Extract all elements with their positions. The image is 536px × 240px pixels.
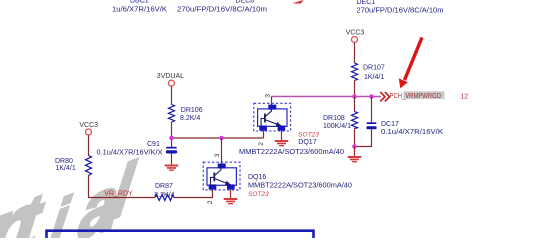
wire net y138 (C91 junction to DQ17 base) [172, 137, 264, 139]
off-page connector chevrons >> [380, 92, 389, 101]
wire DR87 to DQ16 base [174, 189, 213, 197]
wire 3VDUAL to DR106 [171, 86, 173, 104]
wire DQ17 emitter to ground [281, 131, 283, 141]
svg-text:1K/4/1: 1K/4/1 [364, 74, 384, 81]
ground (DQ17) [275, 140, 289, 146]
svg-text:1K/4/1: 1K/4/1 [56, 165, 76, 172]
svg-text:270u/FP/D/16V/8C/A/10m: 270u/FP/D/16V/8C/A/10m [177, 7, 267, 14]
power node VCC3 (right) terminal circle [352, 37, 358, 43]
svg-text:2: 2 [258, 142, 265, 146]
ground (DQ16) [224, 198, 238, 204]
wire VCC3 to DR107 [354, 43, 356, 63]
junction node bottom rail [352, 144, 357, 149]
svg-text:0.1u/4/X7R/16V/K/X: 0.1u/4/X7R/16V/K/X [97, 150, 163, 157]
resistor DR80 [86, 156, 92, 176]
svg-text:DQ17: DQ17 [298, 139, 316, 146]
svg-text:270u/FP/D/16V/8C/A/10m: 270u/FP/D/16V/8C/A/10m [357, 7, 444, 14]
svg-text:12: 12 [460, 94, 468, 101]
red annotation arrow tip (top, cut off) [292, 0, 304, 4]
svg-text:DEC8: DEC8 [236, 0, 255, 4]
junction DQ16 collector node [219, 136, 224, 141]
ground (DR108/DC17) [348, 156, 362, 162]
junction node DC17 top [369, 94, 374, 99]
svg-text:1u/6/X7R/16V/K: 1u/6/X7R/16V/K [112, 7, 167, 14]
wire DQ16 emitter to ground [230, 189, 232, 198]
wire DQ17 collector stub [271, 97, 273, 105]
svg-text:DBC1: DBC1 [130, 0, 149, 5]
svg-text:8.2K/4: 8.2K/4 [154, 192, 174, 199]
wire DQ16 collector [221, 138, 223, 164]
svg-text:DR80: DR80 [55, 158, 73, 165]
svg-text:DQ16: DQ16 [248, 174, 266, 181]
svg-text:DR108: DR108 [323, 115, 345, 122]
wire junction to ground [354, 147, 356, 157]
wire VCC3 to DR80 [88, 135, 90, 155]
svg-text:100K/4/1: 100K/4/1 [323, 123, 351, 130]
svg-text:SOT23: SOT23 [248, 191, 269, 198]
watermark Confidential [0, 146, 140, 240]
svg-text:MMBT2222A/SOT23/600mA/40: MMBT2222A/SOT23/600mA/40 [239, 149, 344, 156]
svg-text:VCC3: VCC3 [346, 30, 365, 37]
power node VCC3 (left) terminal circle [86, 129, 92, 135]
svg-text:3VDUAL: 3VDUAL [157, 73, 184, 80]
svg-text:DEC1: DEC1 [357, 0, 376, 6]
resistor DR107 [352, 63, 358, 81]
junction C91 node [169, 136, 174, 141]
capacitor C91 [166, 147, 177, 154]
svg-text:MMBT2222A/SOT23/600mA/40: MMBT2222A/SOT23/600mA/40 [248, 183, 352, 190]
wire DC17 bottom [355, 129, 372, 146]
svg-text:DC17: DC17 [381, 121, 399, 128]
svg-text:2: 2 [207, 200, 214, 204]
wire DR108 bottom [354, 129, 356, 147]
svg-text:DR87: DR87 [155, 183, 173, 190]
wire DR108 top [354, 97, 356, 112]
net name highlight [404, 91, 445, 99]
transistor DQ17 (MMBT2222A) [254, 103, 291, 131]
svg-text:8.2K/4: 8.2K/4 [180, 115, 200, 122]
svg-text:VR_RDY: VR_RDY [104, 190, 133, 197]
junction node DR107/DR108 [352, 94, 357, 99]
svg-text:DR106: DR106 [181, 107, 203, 114]
svg-text:3: 3 [265, 94, 272, 98]
block border (blue box, bottom) [47, 231, 314, 240]
wire DR106 to C91 [171, 122, 173, 147]
svg-text:C91: C91 [147, 141, 160, 148]
svg-text:0.1u/4/X7R/16V/K: 0.1u/4/X7R/16V/K [381, 129, 443, 136]
svg-text:SOT23: SOT23 [298, 132, 319, 139]
capacitor DC17 [366, 122, 376, 129]
wire DR107 to purple net [354, 81, 356, 97]
ground (C91) [165, 165, 179, 171]
wire net PCH_VRMPWRGD (purple) [272, 96, 382, 98]
svg-text:DR107: DR107 [363, 64, 385, 71]
transistor DQ16 (MMBT2222A) [203, 162, 240, 190]
wire DC17 top drop [371, 97, 373, 123]
wire DR80 down to VR_RDY rail [89, 176, 156, 198]
red annotation arrow [399, 38, 422, 89]
resistor DR108 [352, 112, 358, 129]
svg-text:3: 3 [214, 153, 221, 157]
wire DQ17 base drop [263, 130, 265, 138]
resistor DR106 [169, 105, 175, 123]
svg-text:VCC3: VCC3 [79, 122, 98, 129]
wire C91 to ground [171, 154, 173, 165]
power node 3VDUAL terminal circle [168, 80, 174, 86]
svg-text:PCH_VRMPWRGD: PCH_VRMPWRGD [390, 93, 442, 100]
resistor DR87 (horizontal) [155, 195, 174, 201]
